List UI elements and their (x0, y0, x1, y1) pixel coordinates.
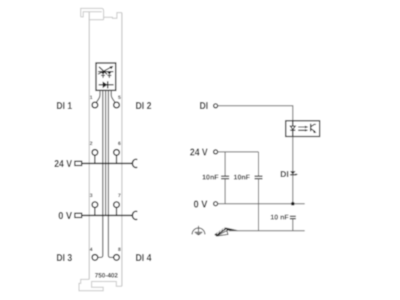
svg-text:10nF: 10nF (234, 174, 251, 181)
svg-text:DI: DI (280, 169, 289, 179)
capacitor C1 10nF (224, 152, 226, 176)
module bottom DIN-rail foot (79, 279, 122, 290)
opto block internal: emission arrow (98, 67, 111, 74)
svg-text:5: 5 (118, 95, 121, 101)
svg-text:24 V: 24 V (190, 148, 208, 159)
terminal 7 stem (116, 207, 118, 215)
wire to terminal 8 (108, 91, 114, 258)
module top profile steps (89, 13, 122, 20)
24V blade contact (75, 161, 82, 165)
svg-text:0 V: 0 V (194, 199, 208, 210)
terminal 2 stem (94, 155, 96, 163)
capacitor C3 10 nF (290, 216, 296, 218)
opto block internal: anode rail (98, 71, 113, 73)
module outline top latch (81, 8, 104, 19)
wire DI input to optocoupler (218, 106, 293, 121)
schematic 24V terminal (214, 150, 218, 154)
svg-text:DI: DI (200, 101, 209, 112)
capacitor C2 10nF (258, 152, 260, 176)
optocoupler U2 (286, 121, 320, 137)
svg-text:2: 2 (90, 141, 93, 147)
svg-text:750-402: 750-402 (95, 273, 119, 280)
0V socket contact arc (132, 211, 137, 219)
svg-text:10nF: 10nF (202, 174, 219, 181)
svg-text:8: 8 (118, 247, 121, 253)
svg-text:3: 3 (90, 193, 93, 199)
schematic DI input terminal (214, 104, 218, 108)
terminal 4 (92, 255, 98, 261)
svg-text:DI 4: DI 4 (136, 253, 152, 264)
0V field rail (82, 214, 133, 216)
svg-text:DI 2: DI 2 (136, 101, 152, 112)
svg-text:7: 7 (118, 193, 121, 199)
earth line (229, 230, 305, 232)
opto block internal: LED down 2 (107, 72, 111, 75)
svg-text:24 V: 24 V (54, 159, 72, 170)
protective earth symbol (192, 226, 205, 235)
svg-text:4: 4 (90, 247, 93, 253)
terminal 1 (92, 102, 98, 108)
opto block internal: LED down 1 (101, 72, 105, 75)
wire to terminal 5 (111, 91, 115, 103)
opto block internal: crossing stroke (99, 67, 107, 75)
svg-text:DI 3: DI 3 (56, 253, 72, 264)
wire optocoupler to status LED (292, 137, 294, 172)
svg-text:1: 1 (90, 95, 93, 101)
optocoupler phototransistor (310, 124, 312, 131)
wire bundle from box (96, 91, 115, 258)
terminal 5 (114, 102, 120, 108)
24V wire (218, 151, 259, 153)
module left edge (88, 12, 90, 280)
terminal 3 (92, 202, 98, 208)
wire to terminal 1 (96, 91, 100, 103)
status LED emission arrow (295, 174, 298, 176)
terminal 8 (114, 255, 120, 261)
24V field rail (82, 162, 133, 164)
wire to terminal 4 (98, 91, 103, 258)
svg-text:0 V: 0 V (58, 211, 72, 222)
opto block box U1 (96, 63, 116, 90)
0V wire (218, 203, 305, 205)
chassis/shield earth symbol (214, 227, 238, 236)
terminal 2 (92, 150, 98, 156)
svg-text:DI 1: DI 1 (56, 101, 72, 112)
status LED DI (290, 171, 295, 174)
terminal 3 stem (94, 207, 96, 215)
terminal 6 (114, 150, 120, 156)
wire to 0V rail (105, 91, 107, 216)
schematic 0V terminal (214, 202, 218, 206)
optocoupler LED (292, 121, 294, 126)
optocoupler light arrows (298, 127, 305, 130)
opto block internal: diode D1 (99, 84, 114, 86)
terminal 7 (114, 202, 120, 208)
svg-text:6: 6 (118, 141, 121, 147)
24V socket contact arc (132, 159, 137, 167)
svg-text:10 nF: 10 nF (270, 214, 289, 221)
0V blade contact (75, 213, 82, 217)
node junction dot (291, 202, 295, 206)
terminal 6 stem (116, 155, 118, 163)
wire status LED to 0V node (292, 175, 294, 204)
module right edge (121, 13, 123, 287)
